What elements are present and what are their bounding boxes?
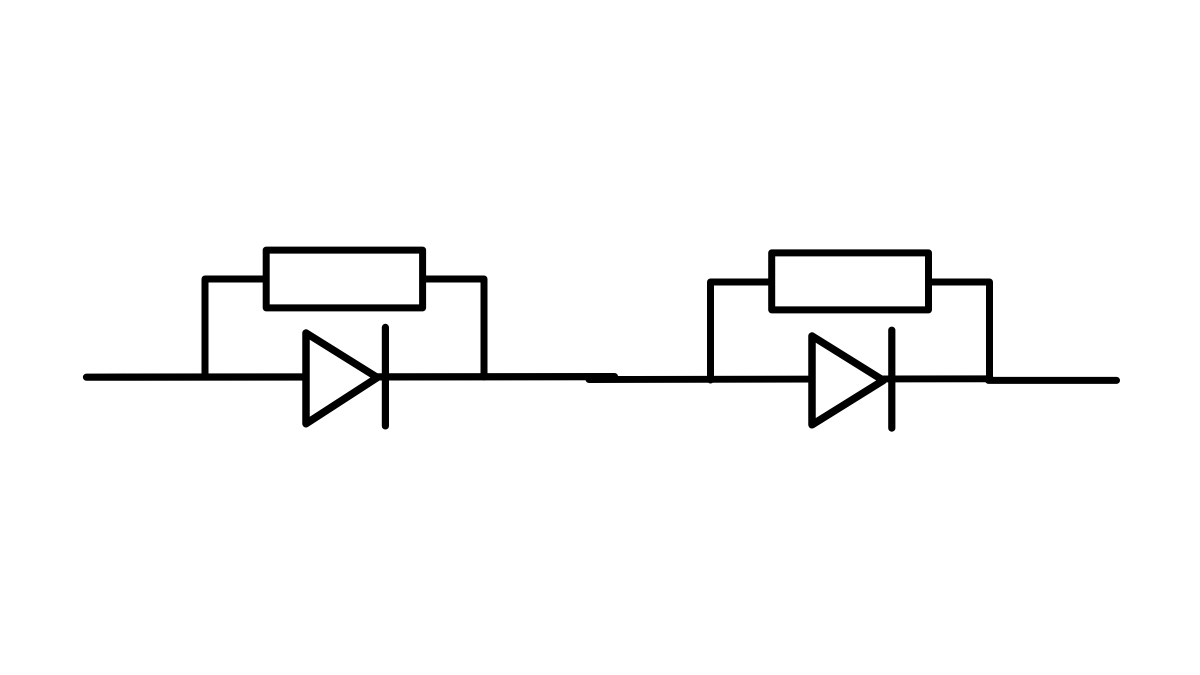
wire W2: right net through D2 (middle junction to right bracket) — [589, 375, 991, 383]
wire: right bracket of R2 (resistor right terminal down to net) — [929, 282, 990, 380]
wire: right bracket of R1 (resistor right terminal down to net) — [423, 279, 484, 377]
resistor R1 — [266, 250, 422, 308]
wire: left bracket of R2 (from net up to resistor left terminal) — [711, 282, 773, 380]
wire: left bracket of R1 (from net up to resistor left terminal) — [205, 279, 266, 377]
diode D1 cathode bar — [382, 327, 389, 426]
diode D1 (triangle / anode) — [306, 333, 377, 424]
wire W1: left lead / net through D1 — [87, 373, 615, 381]
wire W3: right lead (right bracket junction to right end) — [989, 377, 1117, 384]
diode D2 cathode bar — [888, 330, 895, 428]
diode D2 (triangle / anode) — [812, 336, 883, 425]
resistor R2 — [772, 253, 929, 310]
